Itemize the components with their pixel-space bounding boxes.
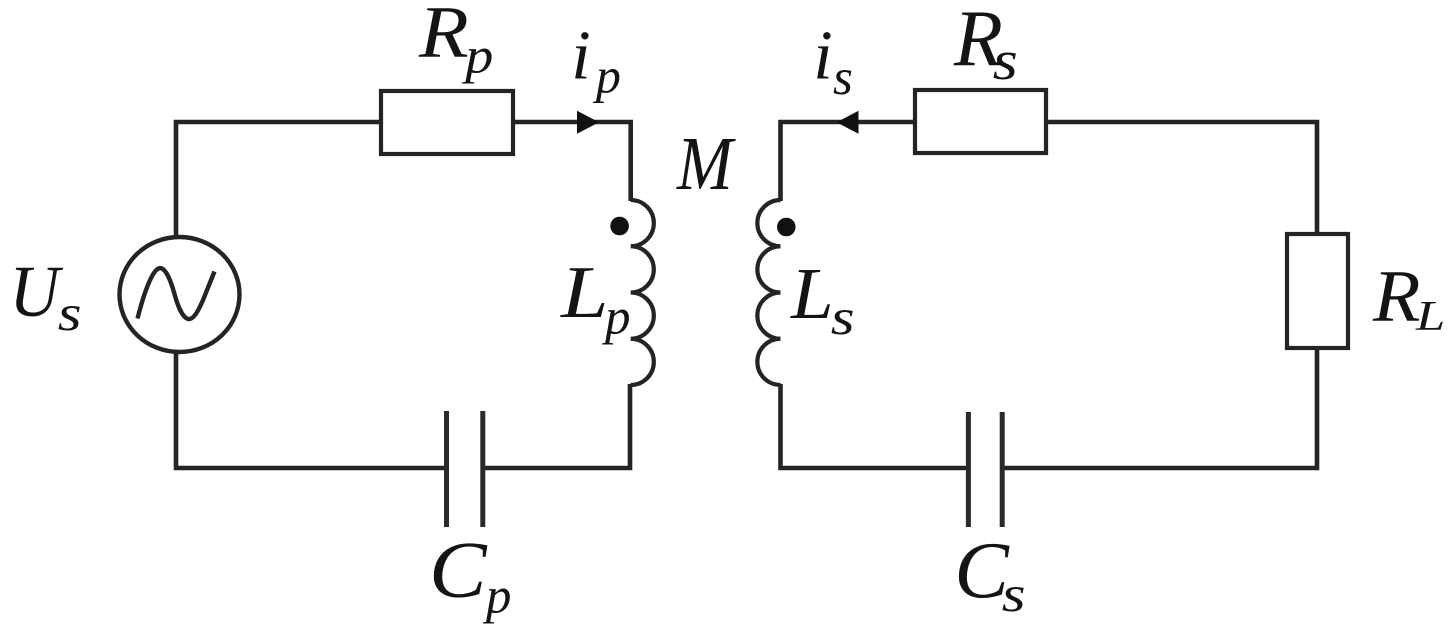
polarity dot on Lp: [610, 217, 629, 236]
svg-text:s: s: [58, 286, 82, 342]
svg-text:i: i: [571, 18, 590, 95]
polarity dot on Ls: [777, 218, 796, 237]
resistor Rs body: [915, 90, 1046, 153]
resistor Rp body: [381, 91, 513, 154]
svg-text:s: s: [831, 290, 855, 346]
svg-text:p: p: [593, 48, 621, 104]
svg-text:U: U: [9, 252, 64, 332]
resistor RL body: [1287, 234, 1348, 348]
wire: secondary top-right (Rs to load RL): [1046, 122, 1317, 235]
svg-text:M: M: [676, 122, 736, 206]
wire: primary top-right (Rp to coil corner) and down to coil: [513, 122, 631, 201]
svg-text:R: R: [1372, 256, 1420, 338]
wire: primary bottom-left (source bottom to capacitor Cp): [176, 350, 446, 468]
wire: secondary bottom-right (Cs to load RL): [1003, 349, 1318, 468]
svg-text:p: p: [461, 27, 493, 84]
svg-text:s: s: [993, 30, 1018, 92]
svg-text:p: p: [602, 289, 631, 345]
current arrow ip: [577, 111, 599, 134]
capacitor Cp plates: [447, 411, 483, 527]
svg-text:s: s: [1002, 567, 1026, 623]
svg-text:R: R: [418, 0, 469, 73]
svg-text:p: p: [483, 568, 512, 624]
capacitor Cs plates: [968, 412, 1002, 527]
current arrow is: [837, 111, 859, 134]
svg-text:s: s: [833, 50, 853, 106]
inductor Ls coil: [757, 200, 780, 385]
wire: primary top-left (source top to resistor Rp): [176, 122, 381, 239]
svg-text:L: L: [1415, 294, 1445, 340]
AC source sine wave: [138, 268, 215, 319]
svg-text:L: L: [560, 252, 608, 334]
wire: secondary bottom-left (Ls bottom to capacitor Cs): [781, 384, 969, 468]
AC source US circle: [120, 237, 240, 352]
inductor Lp coil: [631, 200, 654, 385]
svg-text:L: L: [790, 254, 834, 335]
svg-text:C: C: [429, 527, 488, 615]
wire: secondary top-left (corner above Ls): [781, 122, 916, 201]
wire: primary bottom-right (Cp to coil bottom): [483, 384, 630, 468]
svg-text:i: i: [813, 18, 832, 95]
